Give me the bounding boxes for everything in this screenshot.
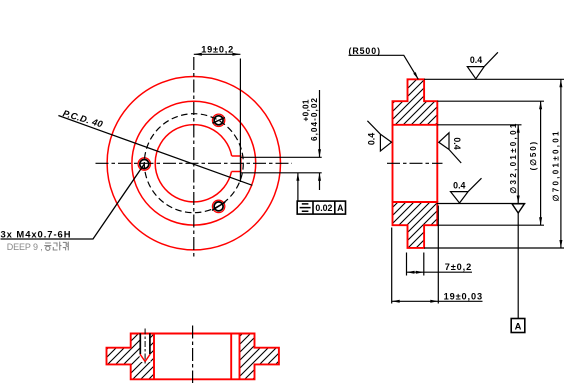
svg-text:19±0,2: 19±0,2 (201, 44, 233, 54)
svg-text:3x M4x0.7-6H: 3x M4x0.7-6H (1, 229, 71, 240)
svg-text:DEEP 9 ,: DEEP 9 , (7, 242, 43, 252)
svg-text:∅32,01±0,01: ∅32,01±0,01 (509, 123, 518, 194)
svg-text:0.02: 0.02 (315, 203, 332, 213)
svg-text:0.4: 0.4 (453, 180, 465, 190)
svg-text:A: A (337, 203, 344, 213)
svg-text:0.4: 0.4 (470, 55, 482, 65)
svg-text:6,04-0,02: 6,04-0,02 (310, 98, 319, 141)
svg-text:+0,01: +0,01 (301, 99, 310, 121)
svg-text:(R500): (R500) (349, 46, 381, 56)
svg-text:0.4: 0.4 (367, 133, 377, 145)
svg-text:19±0,03: 19±0,03 (444, 291, 483, 301)
svg-text:7±0,2: 7±0,2 (445, 262, 472, 272)
svg-text:A: A (515, 321, 522, 332)
svg-text:∅70,01±0,01: ∅70,01±0,01 (551, 131, 560, 202)
svg-text:0.4: 0.4 (452, 137, 462, 149)
